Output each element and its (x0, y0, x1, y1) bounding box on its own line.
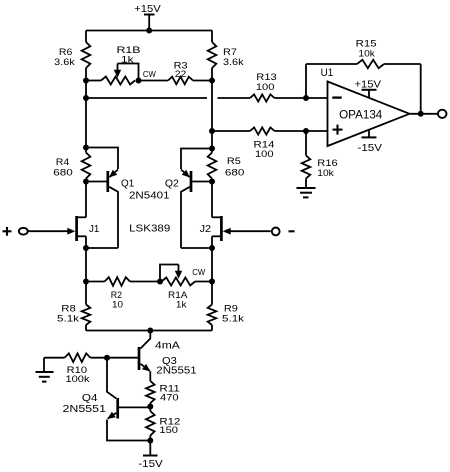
wire minus line right (218, 97, 251, 99)
wire feedback left (306, 64, 357, 98)
transistor Q3 (107, 331, 197, 382)
svg-text:Q4: Q4 (82, 393, 98, 404)
svg-text:R16: R16 (317, 158, 337, 168)
svg-text:100k: 100k (66, 374, 91, 384)
output terminal (438, 110, 447, 118)
svg-text:2N5551: 2N5551 (63, 404, 107, 415)
wire Q2 collector to source node (181, 247, 212, 249)
wire left rail R6 bottom (85, 68, 87, 81)
junction Q1 base node (83, 179, 89, 185)
junction J1 source (83, 245, 89, 251)
junction Q2 emitter node (209, 146, 215, 152)
svg-text:4mA: 4mA (155, 340, 180, 351)
svg-text:R9: R9 (224, 304, 238, 314)
jfet J2 (200, 216, 271, 248)
wire right rail to J2 drain (211, 182, 213, 218)
junction R16 top (303, 95, 309, 101)
junction R2 left (83, 279, 89, 285)
node pot line right (209, 78, 215, 84)
resistor R2 (86, 277, 160, 309)
svg-text:22: 22 (175, 69, 187, 79)
wire output (410, 113, 438, 115)
svg-text:680: 680 (225, 168, 245, 178)
resistor R16 (302, 131, 338, 188)
svg-text:1k: 1k (121, 54, 134, 64)
wire left rail mid (85, 81, 87, 148)
junction Q1 emitter node (83, 145, 89, 151)
svg-text:R15: R15 (356, 39, 377, 49)
svg-text:Q1: Q1 (121, 178, 135, 189)
resistor R7 (208, 42, 244, 68)
wire feedback right (384, 64, 421, 114)
svg-text:10k: 10k (358, 49, 375, 59)
label CW R1B (143, 69, 156, 79)
svg-text:-15V: -15V (358, 142, 383, 154)
wire top rail (86, 30, 212, 32)
input terminal + (3, 227, 28, 236)
op-amp U1 (321, 67, 410, 146)
svg-text:R13: R13 (256, 72, 276, 82)
power +15V (134, 3, 161, 31)
transistor Q1 (86, 148, 170, 249)
svg-text:100: 100 (255, 149, 274, 159)
junction output (418, 111, 424, 117)
resistor R4 (53, 153, 90, 179)
resistor R15 (356, 39, 384, 68)
resistor R10 (44, 353, 107, 384)
junction Q3 collector (147, 328, 153, 334)
wire left rail to J1 drain (85, 182, 87, 218)
transistor Q2 (165, 149, 212, 249)
label LSK389 (129, 224, 171, 235)
transistor Q4 (63, 358, 151, 441)
svg-text:5.1k: 5.1k (222, 313, 245, 323)
junction R1A wiper (157, 279, 163, 285)
svg-text:+15V: +15V (355, 79, 382, 91)
ground R10 (36, 358, 54, 382)
svg-text:CW: CW (143, 69, 156, 79)
svg-text:CW: CW (192, 267, 205, 277)
junction R12 bottom (147, 438, 153, 444)
junction R16 plus (303, 128, 309, 134)
resistor R9 (208, 282, 245, 331)
resistor R8 (57, 282, 90, 331)
svg-text:R4: R4 (56, 157, 70, 167)
wire right rail R7 top (211, 31, 213, 43)
potentiometer R1B (86, 45, 141, 85)
svg-text:680: 680 (53, 167, 73, 177)
junction minus line left rail (83, 95, 89, 101)
resistor R6 (54, 42, 90, 68)
svg-text:3.6k: 3.6k (223, 57, 244, 67)
svg-text:-15V: -15V (138, 458, 163, 470)
node A pot line left (83, 78, 89, 84)
svg-text:R7: R7 (223, 47, 237, 57)
resistor R3 (139, 60, 213, 84)
label CW R1A (192, 267, 205, 277)
svg-text:R6: R6 (59, 47, 73, 57)
power +15V op-amp (355, 79, 382, 98)
junction Q2 base node (209, 179, 215, 185)
svg-text:2N5401: 2N5401 (129, 191, 170, 202)
power -15V op-amp (358, 130, 383, 154)
wire J2 source down (211, 248, 213, 282)
wire minus line left (86, 97, 207, 99)
junction R1B wiper (136, 78, 142, 84)
junction J2 source (209, 245, 215, 251)
svg-text:R8: R8 (61, 304, 76, 314)
wire right rail mid (211, 81, 213, 149)
svg-text:R2: R2 (111, 290, 122, 300)
junction R11 R12 (147, 404, 153, 410)
input terminal - (272, 228, 295, 236)
svg-text:1k: 1k (176, 299, 187, 309)
svg-text:U1: U1 (321, 67, 334, 79)
resistor R14 (250, 127, 328, 158)
wire J1 source down (85, 248, 87, 282)
resistor R5 (208, 153, 245, 179)
svg-text:5.1k: 5.1k (57, 313, 80, 323)
resistor R11 (146, 381, 180, 407)
svg-text:470: 470 (160, 392, 179, 402)
wire R5 stubs (211, 149, 213, 182)
svg-text:150: 150 (159, 425, 178, 435)
svg-text:100: 100 (256, 82, 275, 92)
svg-text:10: 10 (112, 299, 123, 309)
resistor R13 (250, 72, 328, 102)
wire Q1 collector to source node (86, 247, 118, 249)
junction R1A right (209, 279, 215, 285)
junction plus line right rail (209, 128, 215, 134)
svg-text:Q2: Q2 (165, 178, 179, 189)
potentiometer R1A (160, 265, 212, 310)
svg-text:J2: J2 (200, 224, 212, 235)
svg-text:10k: 10k (317, 168, 334, 178)
svg-text:2N5551: 2N5551 (156, 366, 197, 377)
wire right rail R7 bottom (211, 68, 213, 81)
wire tail line (86, 330, 212, 332)
svg-text:R1A: R1A (168, 290, 188, 300)
svg-text:J1: J1 (89, 224, 100, 235)
junction +15V rail (146, 28, 152, 34)
svg-text:R5: R5 (227, 156, 241, 166)
svg-text:LSK389: LSK389 (129, 224, 171, 235)
resistor R12 (146, 407, 180, 441)
junction Q3 base (104, 355, 110, 361)
wire plus line (212, 130, 250, 132)
svg-text:+15V: +15V (134, 3, 161, 15)
wire left rail R6 top (85, 31, 87, 43)
wire R4 stubs (85, 148, 87, 182)
power -15V (138, 441, 163, 470)
svg-text:OPA134: OPA134 (339, 108, 383, 122)
jfet J1 (28, 216, 99, 248)
svg-text:3.6k: 3.6k (54, 57, 75, 67)
ground R16 (297, 188, 316, 197)
